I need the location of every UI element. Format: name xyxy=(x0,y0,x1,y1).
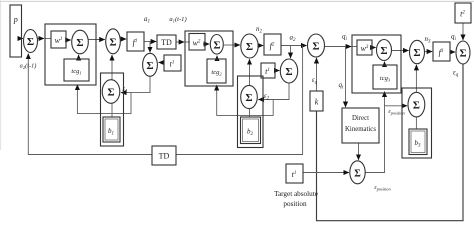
wire p to input sum xyxy=(22,38,24,40)
svg-text:a2(t-1): a2(t-1) xyxy=(20,63,37,70)
wire t2 target down to final sum xyxy=(462,23,464,40)
svg-text:Kinematics: Kinematics xyxy=(345,126,376,133)
wire b2 to bias sum2 xyxy=(249,109,251,117)
wire into w3 xyxy=(352,46,357,48)
bias b2 xyxy=(241,117,261,144)
wire qi branch down to Direct Kinematics xyxy=(345,47,347,108)
wire w1 to sum1a xyxy=(66,39,71,41)
svg-text:Σ: Σ xyxy=(107,87,114,99)
wire t1 bottom to position sum xyxy=(303,172,349,174)
input sum circle 1 xyxy=(24,30,38,53)
sum circle layer2 inner xyxy=(210,35,223,55)
wire branch a2 down to target sum2 xyxy=(290,46,292,59)
wire t1 box2 to target sum2 xyxy=(275,70,279,72)
time delay TD1 xyxy=(157,35,176,49)
wire main sum3 to f3 xyxy=(425,51,433,53)
svg-text:Σ: Σ xyxy=(354,168,361,179)
svg-text:Σ: Σ xyxy=(213,40,220,52)
wire eps position branch up into tcg3 xyxy=(384,92,386,106)
tcg3 box xyxy=(373,65,397,89)
svg-text:Σ: Σ xyxy=(27,36,34,48)
sigma glyphs in sum circles xyxy=(27,36,467,179)
wire a2 branch down and TD2 left to input sum1 xyxy=(176,46,303,155)
svg-text:εposition: εposition xyxy=(374,185,390,191)
svg-text:a1(t-1): a1(t-1) xyxy=(169,16,186,23)
svg-text:Σ: Σ xyxy=(109,36,116,48)
svg-text:Σ: Σ xyxy=(380,45,387,57)
svg-text:position: position xyxy=(283,200,307,208)
tcg2 box xyxy=(207,59,226,83)
svg-text:Target absolute: Target absolute xyxy=(274,190,318,198)
bias sum circle 2 xyxy=(241,85,258,108)
layer3 box xyxy=(352,35,401,93)
transfer f1 xyxy=(127,32,144,51)
wire tcg2 up to sum2a xyxy=(216,56,218,59)
svg-text:k: k xyxy=(315,98,319,107)
target t1 bottom xyxy=(286,164,303,183)
target t2 top right xyxy=(455,3,471,23)
main sum circle 3 xyxy=(410,40,425,63)
roman block labels xyxy=(159,38,377,208)
svg-text:Σ: Σ xyxy=(413,47,420,59)
wire target sum2 to bias sum2 (eps2) xyxy=(258,83,289,100)
wire eps1 branch to tcg1 xyxy=(77,85,131,114)
svg-text:Σ: Σ xyxy=(459,48,466,60)
sum circle layer1 inner xyxy=(72,30,89,54)
layer1 box xyxy=(45,24,96,85)
wire bias sum1 up to main sum1 xyxy=(111,55,113,80)
main sum circle 1 xyxy=(106,29,121,54)
wire eps2 branch to tcg2 xyxy=(217,85,274,115)
wire f2 to input sum3 (a2) xyxy=(281,45,307,47)
transfer f2 xyxy=(264,34,281,55)
svg-text:Σ: Σ xyxy=(285,66,292,78)
wire f1 to TD1 (a1) xyxy=(144,41,156,43)
wire f3 to final sum xyxy=(450,51,455,53)
wire sum1a to main sum1 xyxy=(88,39,105,41)
wire b3 to bias sum3 xyxy=(415,117,417,129)
target t1 layer1 xyxy=(164,55,181,71)
transfer f3 xyxy=(433,42,450,61)
input vector p xyxy=(10,5,22,57)
sum circle layer3 inner xyxy=(377,40,392,61)
weight w3 xyxy=(357,40,372,55)
svg-text:TD: TD xyxy=(159,152,170,161)
wire DK down to position sum xyxy=(358,143,360,160)
wire input sum to layer1 box xyxy=(38,38,45,40)
wire tcg1 up to sum1a xyxy=(78,55,80,59)
position sum circle xyxy=(350,161,365,184)
bias b3 xyxy=(409,129,427,155)
final sum circle xyxy=(456,41,470,64)
wire main sum1 to f1 xyxy=(120,38,126,40)
time delay TD2 xyxy=(152,146,176,165)
wire input sum3 to layer3 box xyxy=(325,46,352,48)
wire branch a1 down to target sum1 xyxy=(149,42,151,53)
wire TD1 to layer2 box xyxy=(176,41,184,43)
bias b1 xyxy=(103,117,120,142)
wire eps position: pos sum right up into bias sum3 xyxy=(365,106,407,173)
svg-text:Σ: Σ xyxy=(312,41,319,53)
svg-text:Σ: Σ xyxy=(245,92,252,104)
svg-text:Σ: Σ xyxy=(146,60,153,72)
weight w1 xyxy=(51,31,66,48)
wire main sum2 to f2 xyxy=(258,45,263,47)
wire into w2 xyxy=(185,41,190,43)
block letters xyxy=(13,10,466,180)
wire sum2a to main sum2 xyxy=(224,44,240,46)
wire bias sum2 up to main sum2 xyxy=(249,59,251,85)
wire feedback eq: final sum down, bottom, up to k xyxy=(317,64,464,221)
faint scan border top xyxy=(0,0,474,2)
svg-text:εposition: εposition xyxy=(388,109,404,115)
wire w2 to sum2a xyxy=(203,43,209,45)
wire sum3a to main sum3 xyxy=(392,50,409,52)
svg-text:Σ: Σ xyxy=(413,100,420,112)
tcg1 box xyxy=(64,59,89,81)
svg-text:TD: TD xyxy=(161,38,172,47)
main sum circle 2 xyxy=(241,34,258,58)
wire k up to input sum3 xyxy=(316,58,318,91)
bias box2 xyxy=(238,76,264,148)
wire w3 to sum3a xyxy=(372,47,376,49)
faint scan border left xyxy=(0,0,2,150)
wire bias sum3 up to main sum3 xyxy=(415,65,417,93)
signal labels xyxy=(20,15,459,191)
Direct Kinematics box xyxy=(342,108,379,143)
input sum circle 3 xyxy=(308,34,325,57)
svg-text:Σ: Σ xyxy=(246,41,253,53)
bias sum circle 1 xyxy=(102,80,120,104)
wire b1 to bias sum1 xyxy=(111,103,113,117)
layer2 box xyxy=(185,31,233,86)
target sum circle 2 xyxy=(280,59,297,83)
svg-text:p: p xyxy=(13,15,18,24)
wire into w1 xyxy=(45,38,51,40)
wire tcg3 up to sum3a xyxy=(384,62,386,65)
bias sum circle 3 xyxy=(408,92,425,117)
bias box3 xyxy=(402,88,432,158)
svg-text:Direct: Direct xyxy=(352,115,369,122)
wire t1 box to target sum1 xyxy=(159,62,164,64)
target t1 layer2 xyxy=(261,63,275,78)
weight w2 xyxy=(189,34,205,51)
wire target sum1 to bias sum1 (eps1) xyxy=(121,76,150,92)
wire TD2 out left and up to input sum1 xyxy=(28,54,152,155)
bias box1 xyxy=(101,73,124,146)
target sum circle 1 xyxy=(143,53,158,76)
svg-text:Σ: Σ xyxy=(76,37,83,49)
gain k xyxy=(310,91,323,111)
